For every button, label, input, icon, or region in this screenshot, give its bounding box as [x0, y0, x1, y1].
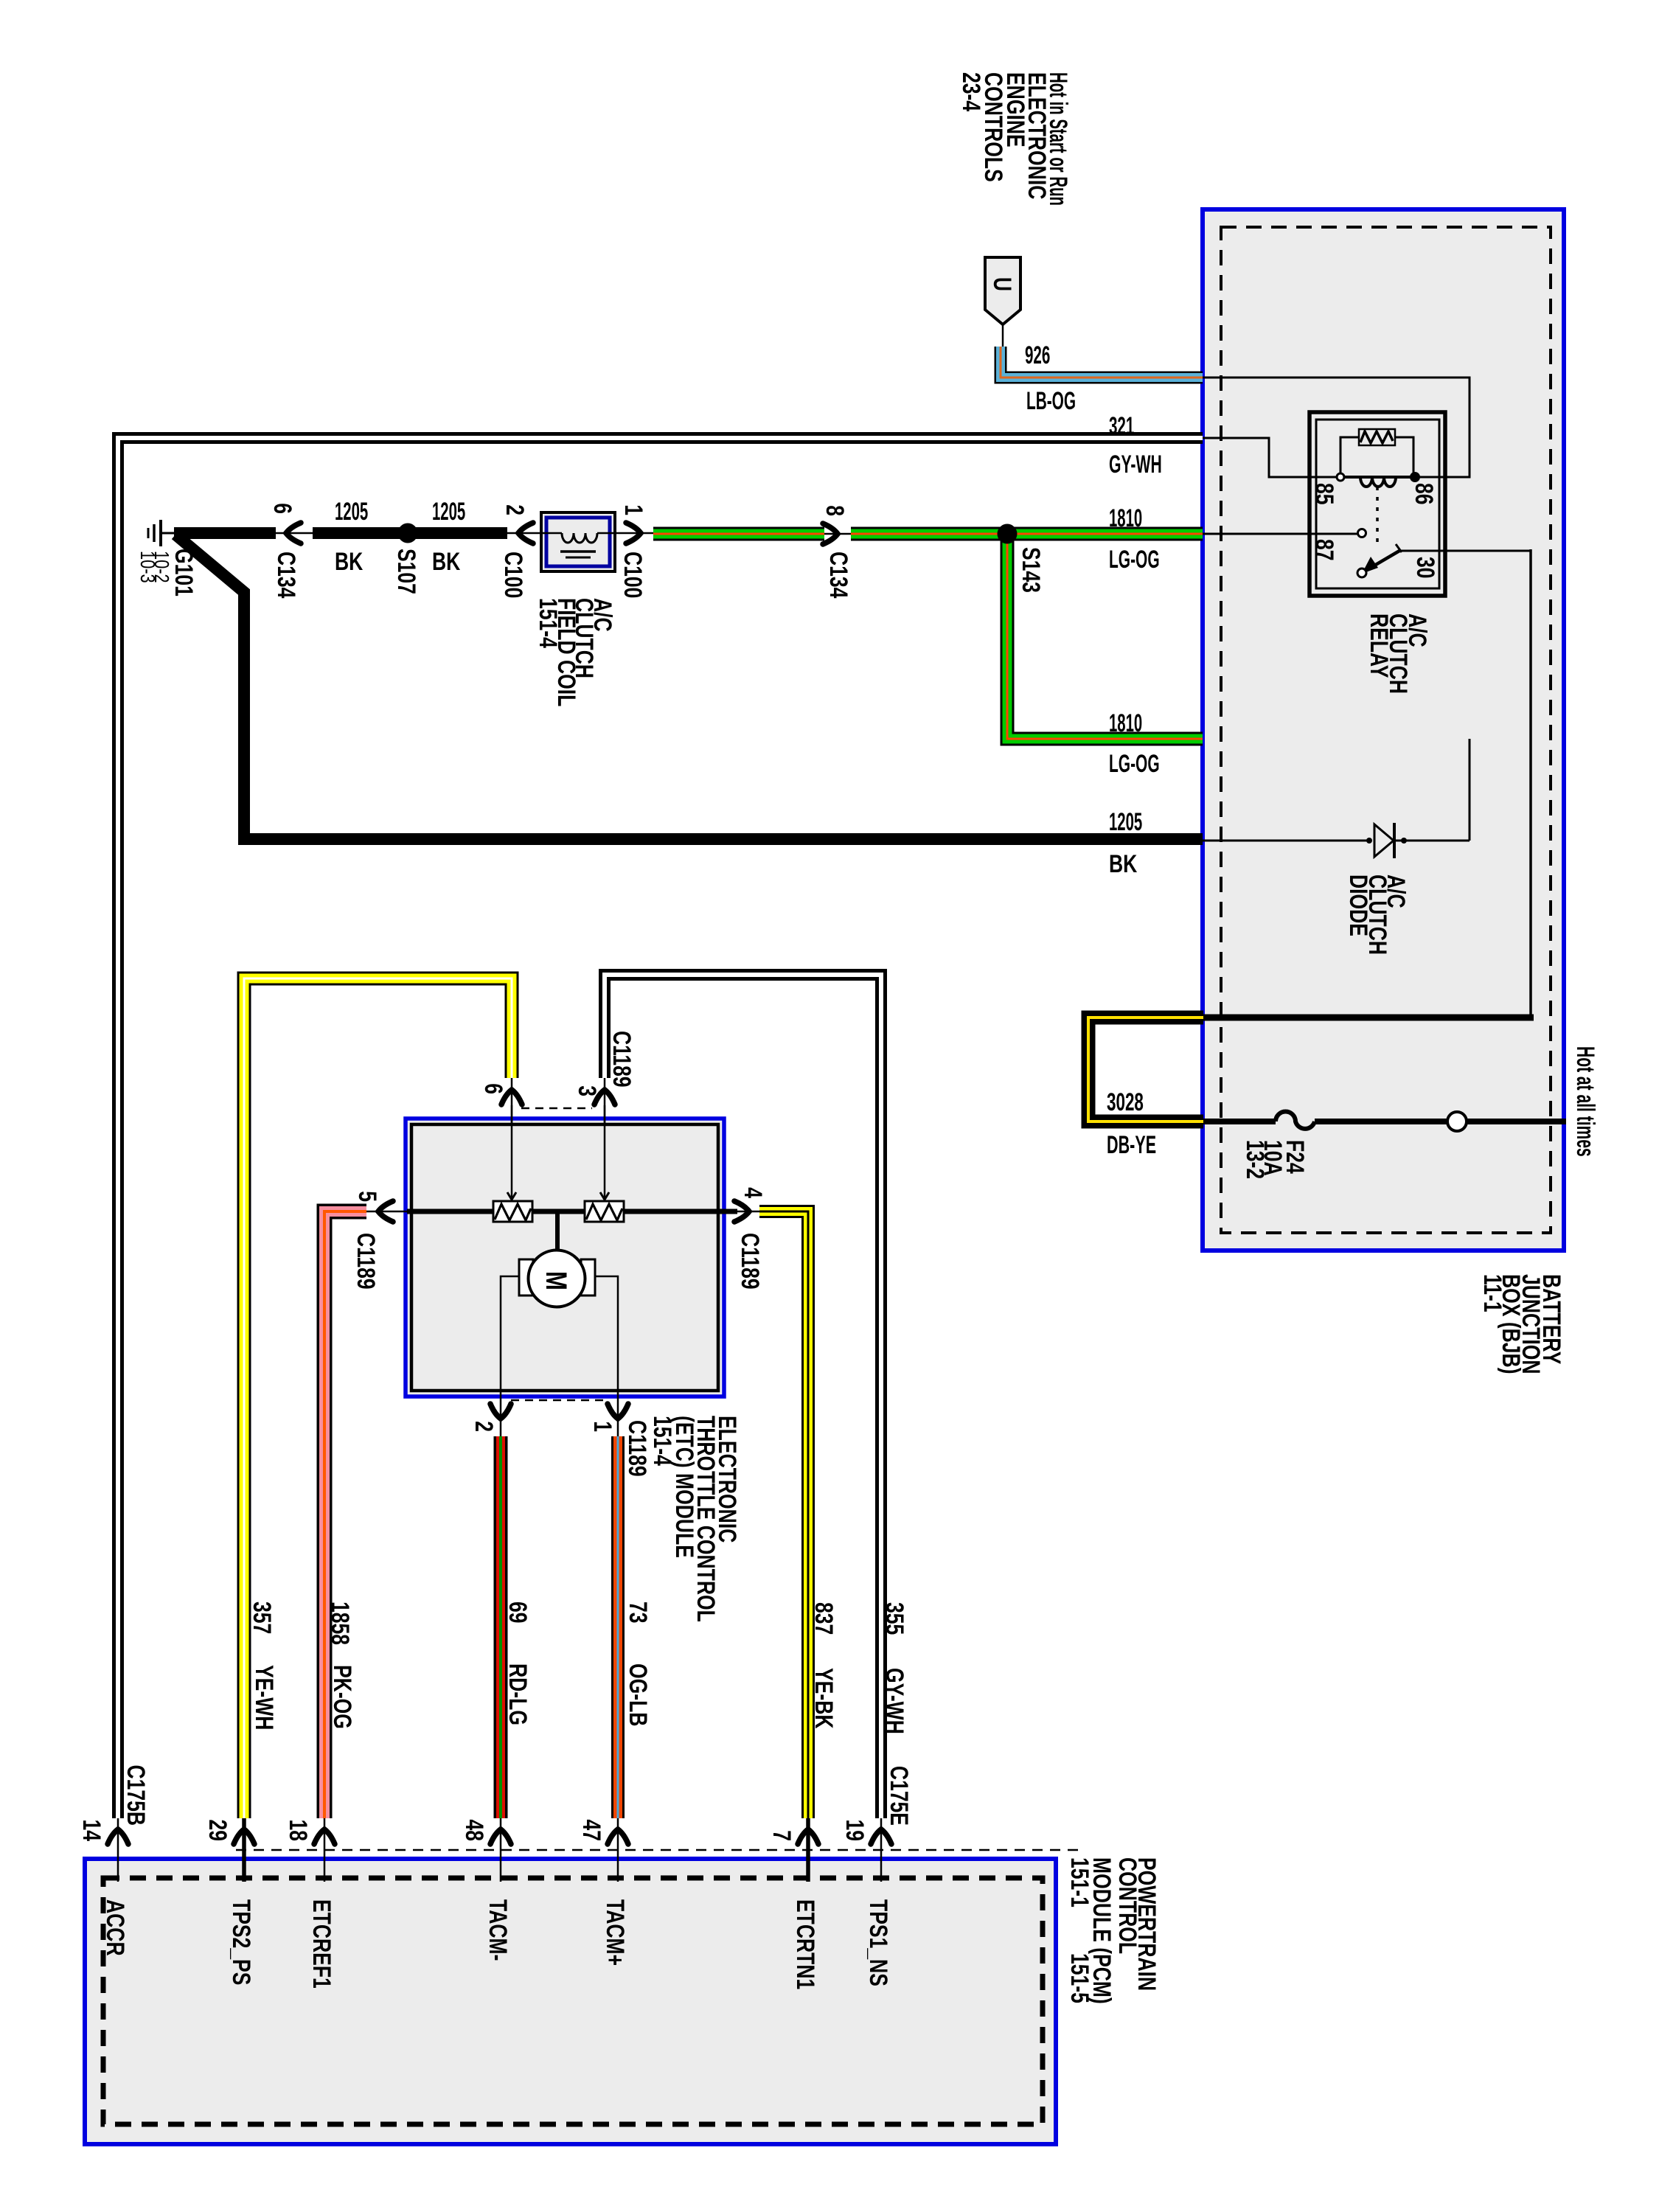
svg-text:1205: 1205	[1109, 808, 1142, 836]
svg-text:151-4: 151-4	[534, 598, 562, 648]
svg-text:29: 29	[204, 1819, 232, 1841]
wire 837 YE-BK: ETC pin 4 to PCM pin 7	[759, 1211, 808, 1818]
wire 321 GY-WH from BJB relay 85 to PCM pin 14 (C175B)	[118, 438, 1203, 1818]
svg-text:ACCR: ACCR	[101, 1899, 129, 1956]
svg-text:BK: BK	[432, 548, 460, 576]
svg-text:2: 2	[470, 1421, 498, 1432]
svg-text:7: 7	[768, 1830, 796, 1841]
svg-text:926: 926	[1025, 341, 1050, 369]
ETC pin 6 arrow	[511, 1078, 513, 1123]
svg-text:TACM-: TACM-	[484, 1899, 512, 1961]
resistor feed lines	[511, 1105, 513, 1200]
A/C clutch relay box	[1310, 412, 1445, 596]
svg-text:C175E: C175E	[885, 1766, 913, 1826]
svg-text:1205: 1205	[335, 498, 368, 526]
PCM pin 48 TACM-	[500, 1818, 502, 1882]
svg-text:C175B: C175B	[122, 1764, 150, 1826]
diode feed line from 1810 LG-OG	[1469, 739, 1471, 841]
svg-text:4: 4	[739, 1187, 767, 1198]
PCM pin 18 ETCREF1	[324, 1818, 326, 1882]
fuse F24 10A line (Hot at all times)	[1203, 1119, 1276, 1124]
svg-text:1: 1	[588, 1421, 616, 1432]
splice S107	[398, 524, 418, 543]
svg-text:13-2: 13-2	[1241, 1140, 1269, 1179]
ETC pin 5 arrow	[366, 1211, 407, 1213]
wire 1858 PK-OG: ETC pin 5 to PCM pin 18	[324, 1211, 366, 1818]
motor output lines	[501, 1276, 519, 1436]
relay pin 87	[1358, 529, 1366, 538]
connector C100 pin 1 arrow	[613, 532, 653, 535]
relay armature dashed link	[1376, 487, 1379, 543]
wire 1810 LG-OG: C134 to BJB (through S143)	[851, 527, 1203, 541]
svg-text:14: 14	[77, 1819, 105, 1841]
relay coil	[1340, 476, 1415, 479]
wire stub from U connector	[1002, 324, 1004, 348]
A/C clutch diode	[1203, 840, 1370, 842]
PCM pin 7 ETCRTN1	[806, 1818, 810, 1882]
svg-text:C134: C134	[272, 552, 300, 598]
svg-text:ETCRTN1: ETCRTN1	[791, 1899, 819, 1989]
svg-text:LB-OG: LB-OG	[1026, 387, 1076, 415]
wire 69 RD-LG: ETC pin 2 to PCM pin 48	[494, 1436, 508, 1818]
ETC resistor track 1	[493, 1201, 532, 1222]
battery terminal circle	[1447, 1112, 1467, 1131]
svg-text:S143: S143	[1017, 547, 1045, 593]
svg-text:87: 87	[1310, 539, 1338, 561]
svg-text:YE-WH: YE-WH	[250, 1665, 278, 1730]
PCM pin 14 ACCR	[117, 1818, 119, 1882]
wire 73 OG-LB: ETC pin 1 to PCM pin 47	[611, 1436, 625, 1818]
ETC pin 1 arrow	[608, 1404, 628, 1419]
svg-text:M: M	[540, 1271, 573, 1290]
svg-text:6: 6	[268, 503, 296, 514]
svg-text:86: 86	[1410, 483, 1438, 505]
svg-text:2: 2	[501, 504, 529, 515]
svg-text:BK: BK	[335, 548, 363, 576]
svg-text:DB-YE: DB-YE	[1107, 1131, 1156, 1159]
wire 357 YE-WH: ETC pin 6 to PCM pin 29	[244, 978, 512, 1818]
svg-text:30: 30	[1411, 557, 1439, 579]
svg-text:CONTROL: CONTROL	[1113, 1857, 1141, 1954]
powertrain control module (PCM) outline	[85, 1859, 1056, 2144]
svg-text:321: 321	[1109, 412, 1134, 440]
svg-text:C100: C100	[499, 552, 527, 598]
svg-text:C1189: C1189	[623, 1420, 651, 1477]
connector C134 pin 8 arrow	[824, 533, 851, 535]
BJB inner dashed border	[1221, 227, 1551, 1233]
U connector symbol (Hot in Start or Run feed)	[985, 257, 1020, 324]
svg-text:U: U	[988, 277, 1016, 291]
field coil inductor symbol	[543, 532, 562, 535]
svg-text:PK-OG: PK-OG	[328, 1665, 356, 1729]
svg-text:DIODE: DIODE	[1344, 874, 1372, 936]
wire from relay 30 down to 3028 DB-YE exit	[1398, 550, 1531, 552]
svg-text:TPS1_NS: TPS1_NS	[864, 1899, 892, 1986]
ETC bus line	[407, 1209, 737, 1214]
svg-text:C100: C100	[619, 552, 647, 598]
PCM pin 29 TPS2_PS	[242, 1818, 246, 1882]
svg-text:18: 18	[284, 1819, 312, 1841]
svg-text:355: 355	[880, 1602, 908, 1635]
C1189 dashed connector line top	[521, 1107, 592, 1110]
A/C clutch field coil box	[541, 512, 615, 571]
wire 926 LB-OG	[1001, 347, 1203, 378]
battery junction box (BJB) outline	[1203, 209, 1564, 1251]
svg-text:1: 1	[619, 504, 647, 515]
svg-text:6: 6	[479, 1083, 507, 1094]
relay pin 86	[1410, 472, 1420, 482]
LG-OG branch inside BJB to relay 87	[1203, 533, 1357, 535]
GY-WH branch inside BJB to relay 85	[1203, 438, 1337, 477]
svg-text:LG-OG: LG-OG	[1109, 546, 1160, 574]
ETC resistor track 2	[585, 1201, 624, 1222]
svg-text:BK: BK	[1109, 850, 1137, 878]
connector C100 pin 2 arrow	[507, 532, 543, 535]
svg-text:47: 47	[577, 1819, 605, 1841]
svg-text:Hot at all times: Hot at all times	[1571, 1046, 1599, 1157]
svg-text:GY-WH: GY-WH	[880, 1668, 908, 1734]
svg-text:1810: 1810	[1109, 709, 1142, 737]
svg-text:OG-LB: OG-LB	[624, 1663, 652, 1726]
wire 1205 BK: S107 to C100	[408, 527, 507, 539]
electronic throttle control (ETC) module outline	[406, 1119, 724, 1397]
wire 1205 BK: C134 to S107	[313, 527, 408, 539]
svg-text:ETCREF1: ETCREF1	[307, 1899, 335, 1989]
svg-text:3028: 3028	[1107, 1088, 1144, 1116]
svg-text:LG-OG: LG-OG	[1109, 750, 1160, 778]
splice S143	[998, 524, 1018, 544]
PCM pin 19 TPS1_NS	[880, 1818, 883, 1882]
svg-text:RD-LG: RD-LG	[504, 1663, 532, 1725]
C175 dashed connector line	[236, 1849, 1084, 1851]
svg-text:C1189: C1189	[352, 1233, 380, 1290]
PCM pin 47 TACM+	[617, 1818, 619, 1882]
svg-text:837: 837	[810, 1602, 838, 1635]
PCM inner dashed border	[103, 1878, 1043, 2124]
svg-text:73: 73	[624, 1601, 652, 1624]
relay switch arm	[1366, 551, 1399, 571]
LB-OG branch inside BJB to relay 86	[1203, 378, 1470, 477]
svg-text:S107: S107	[392, 549, 420, 594]
svg-text:85: 85	[1310, 483, 1338, 505]
ETC pin 3 arrow	[604, 1078, 606, 1123]
svg-text:10-3: 10-3	[136, 551, 159, 583]
wire 1205 BK: G101 to C134	[174, 527, 276, 539]
svg-text:TACM+: TACM+	[601, 1899, 629, 1966]
svg-text:GY-WH: GY-WH	[1109, 451, 1162, 479]
svg-text:TPS2_PS: TPS2_PS	[227, 1899, 255, 1985]
svg-text:3: 3	[573, 1085, 601, 1096]
svg-text:RELAY: RELAY	[1365, 613, 1393, 678]
ETC pin 4 arrow	[737, 1211, 759, 1213]
ground G101	[159, 520, 162, 546]
wire 1810 LG-OG branch from S143 down and into BJB	[1007, 534, 1203, 739]
svg-text:357: 357	[248, 1601, 276, 1634]
svg-text:151-1: 151-1	[1065, 1857, 1093, 1907]
wire 3028 DB-YE hairpin outside BJB	[1088, 1018, 1203, 1121]
svg-text:19: 19	[841, 1819, 869, 1841]
svg-text:11-1: 11-1	[1478, 1274, 1506, 1312]
svg-text:48: 48	[460, 1819, 488, 1841]
svg-text:151-5: 151-5	[1065, 1953, 1093, 2003]
svg-text:C1189: C1189	[736, 1233, 764, 1290]
wire 1810 LG-OG: C100 to C134	[653, 527, 824, 541]
C1189 dashed connector line bottom	[511, 1399, 606, 1402]
svg-text:8: 8	[821, 505, 849, 516]
wire 355 GY-WH: ETC pin 3 to PCM pin 19	[605, 975, 881, 1818]
relay internal resistor	[1359, 429, 1395, 445]
svg-text:23-4: 23-4	[957, 72, 985, 111]
svg-text:69: 69	[504, 1601, 532, 1624]
svg-text:C1189: C1189	[608, 1031, 636, 1088]
wire 1205 BK lower: G101 to BJB diode	[175, 535, 1203, 839]
svg-text:151-4: 151-4	[648, 1416, 676, 1466]
ETC pin 2 arrow	[490, 1404, 511, 1419]
svg-text:C134: C134	[824, 552, 852, 598]
svg-text:1858: 1858	[326, 1601, 354, 1645]
relay pin 85	[1337, 473, 1344, 481]
svg-text:1810: 1810	[1109, 504, 1142, 532]
svg-text:YE-BK: YE-BK	[810, 1668, 838, 1729]
ETC motor	[555, 1211, 560, 1251]
svg-text:5: 5	[353, 1191, 381, 1202]
svg-text:1205: 1205	[432, 498, 465, 526]
connector C134 pin 6 arrow	[276, 532, 313, 535]
